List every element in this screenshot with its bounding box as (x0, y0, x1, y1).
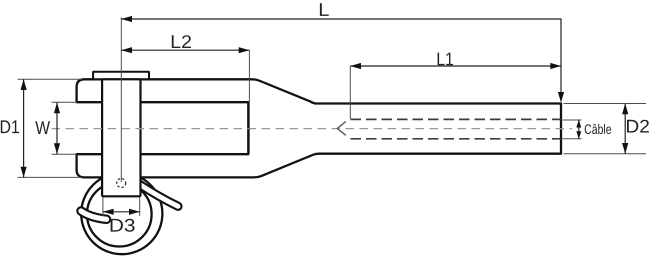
dimension L1 arrow right (550, 63, 561, 69)
split ring tail end (right band) (140, 184, 179, 206)
dimension W line (56, 103, 58, 154)
cable dimension arrow up (576, 120, 581, 128)
dimension D3 line (103, 211, 140, 213)
dimension D2 arrow down (622, 143, 628, 154)
dimension L2 line (121, 49, 249, 51)
label L1 (438, 53, 453, 66)
dimension W extension bottom (52, 153, 78, 155)
cable hole hidden line bottom (351, 138, 562, 140)
cable dimension line (578, 120, 580, 139)
dimension W extension top (52, 101, 78, 103)
cable dimension arrow down (576, 131, 581, 139)
dimension D2 extension bottom (564, 153, 647, 155)
dimension D1 extension top (18, 78, 83, 80)
dimension D2 arrow up (622, 104, 628, 115)
split ring front end (left band) (81, 211, 107, 219)
fork terminal body outline (77, 79, 561, 177)
label W (35, 121, 50, 134)
clevis pin head cap (93, 72, 149, 80)
cable dimension extension top (563, 119, 582, 121)
split ring outer circle (81, 173, 162, 254)
dimension L1 line (350, 65, 561, 67)
label L2 (172, 35, 191, 48)
dimension L1 extension line (349, 66, 351, 119)
horizontal centerline (52, 128, 573, 130)
dimension D1 arrow up (21, 79, 27, 90)
dimension L arrow left (121, 16, 132, 22)
dimension L2 arrow left (121, 47, 132, 53)
dimension D1 extension bottom (18, 176, 83, 178)
dimension D3 arrow left (103, 209, 114, 215)
dimension D3 extension right (139, 197, 141, 216)
cable dimension extension bottom (563, 138, 582, 140)
dimension L1 arrow left (350, 63, 361, 69)
label Câble (585, 124, 611, 134)
dimension D1 line (23, 79, 25, 177)
label L (320, 3, 329, 16)
pin vertical centerline (120, 17, 122, 182)
ring hole in pin (dashed circle) (117, 179, 126, 188)
split ring inner circle (87, 182, 152, 247)
dimension D3 extension left (102, 197, 104, 216)
drill point chevron (337, 122, 346, 136)
label D1 (1, 120, 19, 133)
dimension D2 line (624, 104, 626, 154)
dimension D3 arrow right (129, 209, 140, 215)
dimension L line (121, 19, 561, 99)
dimension W arrow up (54, 103, 60, 114)
label D2 (627, 120, 649, 133)
label D3 (111, 219, 135, 232)
dimension L arrow down (558, 92, 564, 103)
dimension D2 extension top (564, 103, 647, 105)
clevis pin (102, 79, 140, 196)
cable hole hidden line top (351, 118, 562, 120)
dimension D1 arrow down (21, 167, 27, 178)
dimension L2 arrow right (239, 47, 250, 53)
dimension L2 extension line (248, 50, 250, 153)
dimension W arrow down (54, 143, 60, 154)
